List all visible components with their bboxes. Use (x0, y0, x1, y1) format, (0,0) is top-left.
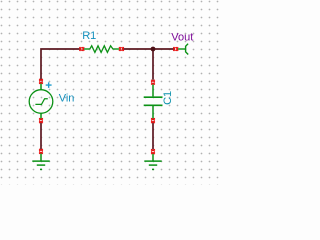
resistor R1 (83, 46, 119, 53)
pin marker R1 right (119, 47, 124, 51)
pin marker ground right (151, 149, 155, 154)
svg-text:C1: C1 (162, 91, 174, 105)
capacitor C1 (144, 84, 163, 118)
ground under C1 (144, 153, 161, 169)
voltage source V1 (Vin) (29, 83, 53, 118)
pin marker Vin bottom (39, 118, 43, 123)
pin marker Vout port (173, 47, 178, 51)
svg-text:Vout: Vout (171, 32, 193, 44)
polarity + of Vin (46, 82, 52, 88)
wire Vin top pin to R1 left pin (L-shape) (41, 49, 80, 80)
pin marker C1 bottom (151, 118, 155, 123)
wire junction to Vout port (153, 48, 174, 50)
wire C1 bottom pin to ground (152, 122, 154, 149)
wire R1 right pin to junction (123, 48, 153, 50)
pin marker R1 left (80, 47, 85, 51)
pin marker Vin top (39, 79, 43, 84)
wire Vin bottom pin to ground (40, 122, 42, 149)
svg-text:Vin: Vin (59, 92, 75, 104)
svg-text:R1: R1 (82, 30, 96, 42)
ground under Vin (32, 153, 49, 169)
pin marker ground left (39, 149, 43, 154)
wire junction down to C1 top pin (152, 49, 154, 80)
pin marker C1 top (151, 80, 155, 85)
output port Vout (178, 44, 189, 55)
junction node at R1/C1/Vout (151, 47, 156, 52)
